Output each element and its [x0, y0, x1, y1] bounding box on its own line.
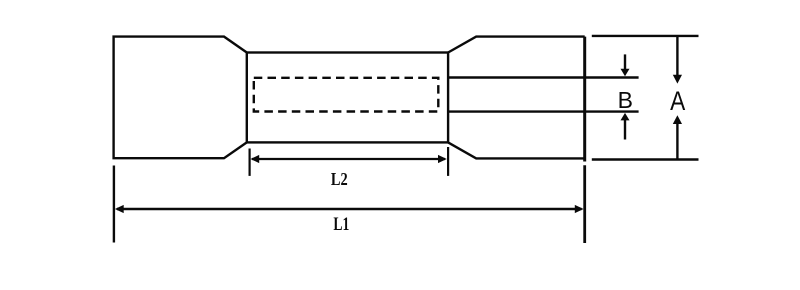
svg-text:B: B — [618, 87, 633, 113]
svg-text:A: A — [670, 86, 685, 116]
svg-text:L2: L2 — [331, 168, 348, 189]
svg-text:L1: L1 — [333, 213, 349, 235]
